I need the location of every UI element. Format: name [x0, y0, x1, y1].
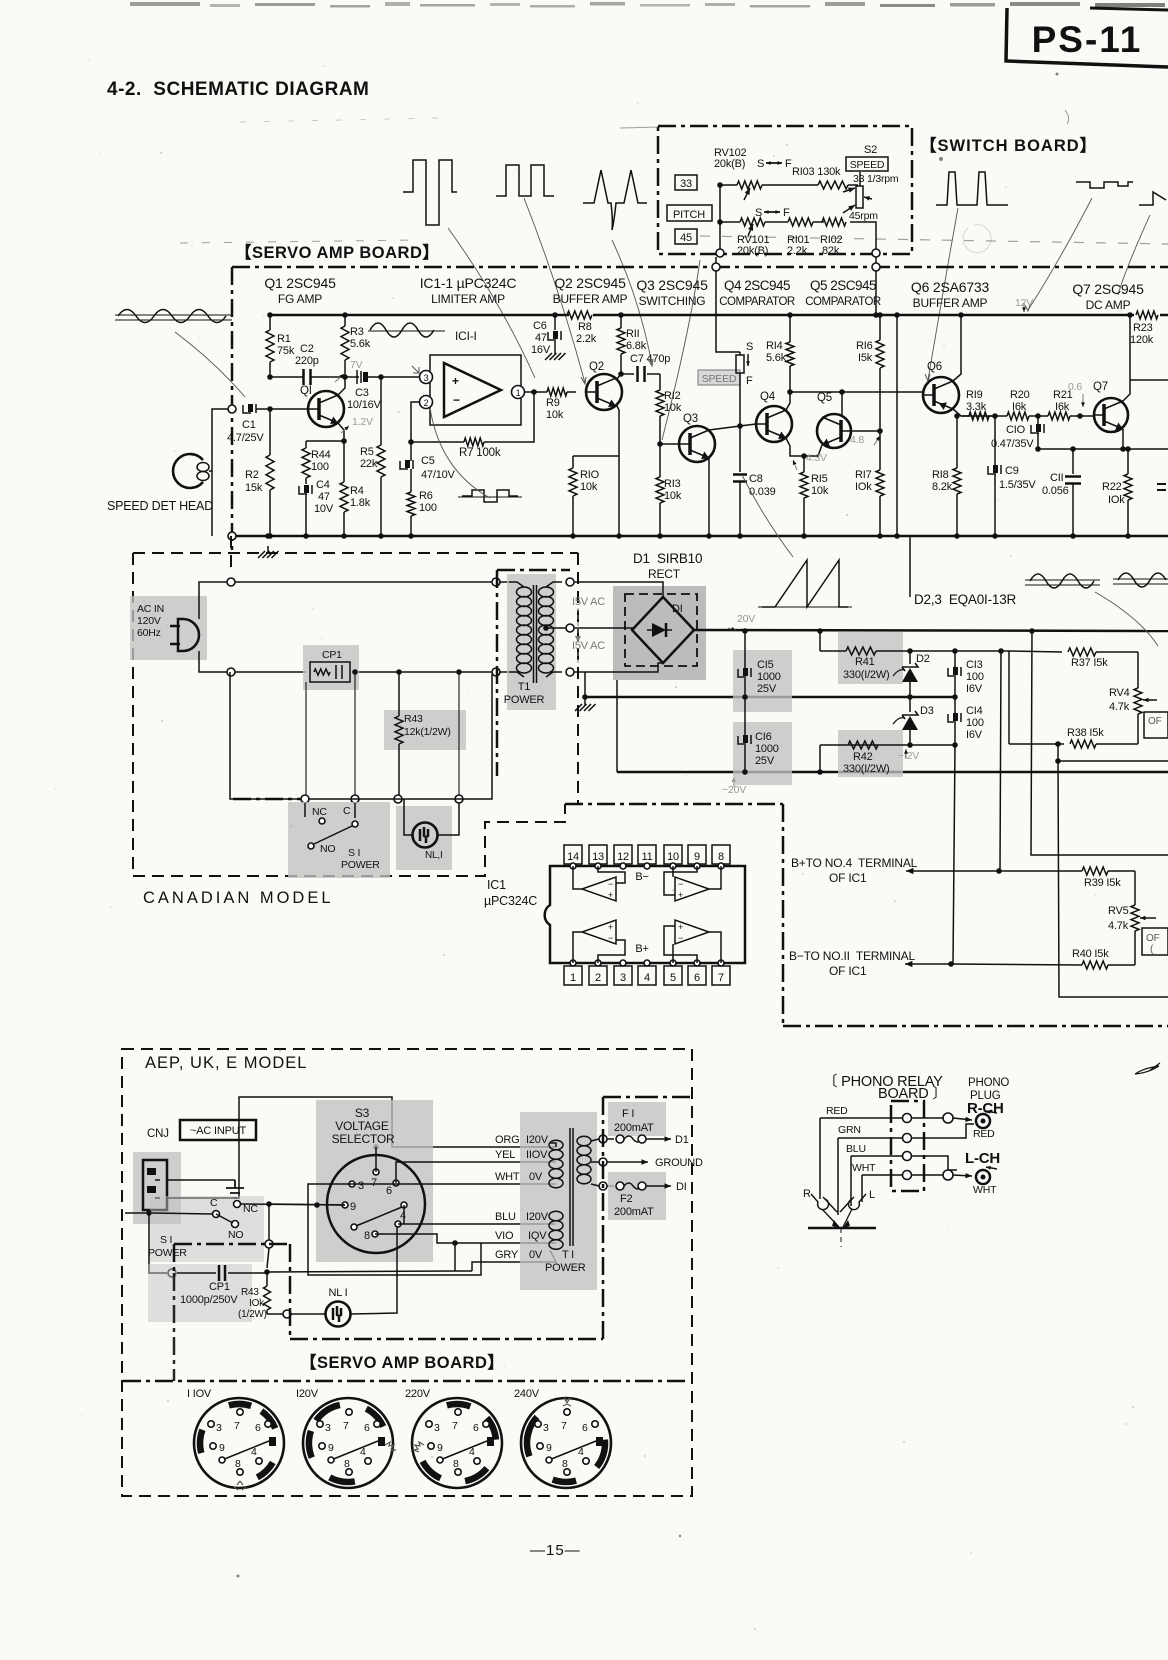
label B- terminal: [789, 949, 915, 978]
svg-text:NL,I: NL,I: [425, 850, 443, 861]
svg-text:C7 470p: C7 470p: [630, 353, 670, 365]
svg-text:7: 7: [234, 1420, 240, 1432]
svg-text:IC1: IC1: [487, 878, 506, 892]
wire plug to S1: [149, 1213, 167, 1273]
svg-text:2.2k: 2.2k: [787, 245, 808, 257]
label IC1-1 stage: [420, 275, 517, 306]
phono ground: [808, 1209, 876, 1247]
phono relay label: [823, 1073, 947, 1102]
svg-text:3: 3: [325, 1422, 331, 1434]
label YEL: [495, 1149, 548, 1161]
node sec top: [566, 578, 574, 586]
wire D label col: [909, 536, 911, 597]
svg-text:SPEED: SPEED: [850, 159, 885, 171]
svg-text:Q2 2SC945: Q2 2SC945: [554, 275, 626, 291]
wire phono WHT down: [861, 1175, 863, 1202]
voltage 4.3V: [793, 452, 827, 470]
label WHT wire: [852, 1162, 876, 1174]
wire AC bottom: [199, 651, 509, 676]
wire GRY CP1 line: [267, 1243, 472, 1272]
svg-text:IOk: IOk: [249, 1298, 265, 1309]
svg-text:8: 8: [718, 851, 724, 863]
svg-text:R4: R4: [350, 485, 364, 497]
wire sec mid to bridge: [574, 628, 632, 630]
wire Q4 base: [740, 424, 756, 426]
svg-text:4: 4: [400, 1210, 406, 1222]
svg-text:VIO: VIO: [495, 1230, 514, 1242]
svg-text:NO: NO: [320, 843, 335, 855]
svg-text:RI8: RI8: [932, 469, 949, 481]
wire Q5 collector: [841, 392, 843, 417]
node sb1: [712, 263, 720, 271]
svg-text:RED: RED: [826, 1105, 848, 1117]
wire rail 449: [1035, 446, 1168, 452]
svg-text:S: S: [746, 341, 753, 353]
svg-text:7: 7: [561, 1420, 567, 1432]
svg-text:9: 9: [219, 1442, 225, 1454]
label BLU: [495, 1211, 549, 1223]
S3 pin 6: [386, 1180, 399, 1197]
svg-text:6.8k: 6.8k: [626, 340, 647, 352]
svg-text:6: 6: [473, 1422, 479, 1434]
svg-text:RI9: RI9: [966, 389, 983, 401]
servo border bottom mid: [565, 803, 783, 806]
svg-text:8: 8: [364, 1230, 370, 1242]
svg-text:3: 3: [216, 1422, 222, 1434]
svg-text:IOk: IOk: [1108, 494, 1125, 506]
svg-text:1: 1: [570, 972, 576, 984]
svg-text:−: −: [678, 933, 683, 943]
resistor R11: [617, 312, 647, 374]
svg-text:C9: C9: [1005, 465, 1019, 477]
wire -20V rail: [617, 771, 1168, 774]
relay contact 4: [903, 1171, 912, 1180]
svg-text:47: 47: [535, 332, 547, 344]
title 4-2 schematic diagram: [107, 79, 369, 100]
wire C2 to C3: [311, 374, 359, 380]
resistor R16: [856, 312, 884, 431]
svg-text:3: 3: [424, 373, 429, 383]
wire Q7 base: [1077, 413, 1094, 419]
svg-text:IC1-1 µPC324C: IC1-1 µPC324C: [420, 275, 517, 291]
svg-text:25V: 25V: [757, 683, 777, 695]
svg-text:−I2V: −I2V: [898, 750, 919, 762]
svg-text:S: S: [757, 158, 764, 170]
wire CP1 down: [305, 682, 307, 796]
svg-text:4.3V: 4.3V: [806, 452, 827, 464]
svg-text:YEL: YEL: [495, 1149, 515, 1161]
wire S3 pin7 up: [375, 1147, 377, 1172]
svg-text:7: 7: [371, 1177, 377, 1189]
svg-text:R1: R1: [277, 333, 291, 345]
svg-text:47: 47: [318, 491, 330, 503]
svg-text:I20V: I20V: [296, 1388, 319, 1400]
svg-text:6: 6: [386, 1185, 392, 1197]
capacitor C14: [948, 697, 984, 748]
resistor R15: [800, 470, 829, 539]
IC1 chip body: [545, 866, 745, 963]
label D1 SIRB10: [633, 551, 702, 581]
svg-text:8: 8: [562, 1458, 568, 1470]
selector setting 110V: [187, 1388, 284, 1490]
speed label box: [698, 370, 740, 385]
svg-text:【SERVO AMP BOARD】: 【SERVO AMP BOARD】: [235, 243, 439, 262]
svg-text:C: C: [343, 805, 351, 817]
resistor R9: [545, 388, 576, 421]
svg-text:POWER: POWER: [545, 1262, 586, 1274]
svg-text:R23: R23: [1133, 322, 1153, 334]
servo board border top: [232, 266, 1168, 269]
resistor R14: [766, 312, 794, 368]
svg-text:75k: 75k: [277, 345, 295, 357]
S3 blade: [351, 1207, 402, 1230]
svg-text:L: L: [869, 1189, 875, 1201]
svg-text:10k: 10k: [664, 402, 682, 414]
svg-text:F I: F I: [622, 1108, 634, 1120]
label 15VAC 2: [572, 640, 605, 666]
stray mark bottom right: [1135, 1063, 1160, 1074]
svg-text:C: C: [210, 1197, 218, 1209]
svg-text:WHT: WHT: [852, 1162, 876, 1174]
label B+ terminal: [791, 856, 918, 885]
svg-text:RI5: RI5: [811, 473, 828, 485]
box OF right 2: [1142, 928, 1168, 955]
svg-text:F: F: [783, 207, 790, 219]
svg-text:NC: NC: [312, 806, 327, 818]
resistor R5: [360, 377, 385, 539]
resistor R22: [1102, 446, 1132, 539]
wire Q4 collector: [786, 368, 790, 410]
node F1 in: [599, 1135, 607, 1143]
wire sec to F2: [591, 1182, 614, 1190]
svg-text:RI3: RI3: [664, 478, 681, 490]
node S2 out: [737, 423, 743, 429]
svg-text:200mAT: 200mAT: [614, 1122, 654, 1134]
IC1 bottom pins: [564, 960, 730, 985]
svg-text:Q6: Q6: [927, 361, 942, 373]
svg-text:Q1 2SC945: Q1 2SC945: [264, 275, 336, 291]
wire to Q6 base: [787, 389, 923, 395]
svg-text:1000: 1000: [757, 671, 781, 683]
ground rail: [232, 535, 1168, 538]
switch S1 AEP: [125, 1196, 264, 1262]
svg-text:−: −: [453, 393, 460, 407]
selector setting 220V: [405, 1388, 502, 1488]
wire mid node: [267, 374, 303, 380]
capacitor C1: [227, 404, 264, 444]
wire AEP hot: [167, 1097, 556, 1198]
svg-text:F: F: [746, 375, 753, 387]
svg-text:FG AMP: FG AMP: [278, 292, 322, 306]
lamp NL1 AEP: [326, 1287, 351, 1327]
svg-text:D1: D1: [675, 1134, 689, 1146]
AEP label: [145, 1054, 307, 1072]
wire sec to F1: [591, 1139, 599, 1141]
svg-text:5.6k: 5.6k: [350, 338, 371, 350]
svg-text:R5: R5: [360, 446, 374, 458]
svg-text:R43: R43: [241, 1287, 259, 1298]
svg-text:CI4: CI4: [966, 705, 983, 717]
svg-text:【SERVO AMP BOARD】: 【SERVO AMP BOARD】: [300, 1353, 504, 1372]
ground sym left: [258, 533, 279, 558]
voltage -12V: [898, 749, 919, 762]
resistor R19: [961, 389, 995, 420]
potentiometer RV101: [737, 207, 790, 257]
label WHT: [495, 1171, 543, 1183]
wire sec bot to bridge: [574, 663, 663, 672]
svg-text:OF: OF: [1146, 933, 1160, 944]
svg-text:RI4: RI4: [766, 340, 783, 352]
S3 pin 9: [342, 1201, 356, 1213]
svg-text:C4: C4: [316, 479, 330, 491]
svg-text:Q6 2SA6733: Q6 2SA6733: [911, 279, 990, 295]
svg-text:Q5: Q5: [817, 392, 832, 404]
svg-text:C2: C2: [300, 343, 314, 355]
svg-text:I5V AC: I5V AC: [572, 596, 605, 608]
noise band top: [130, 2, 1165, 8]
label ORG: [495, 1134, 549, 1146]
relay contact 3: [903, 1152, 912, 1161]
svg-text:10k: 10k: [664, 490, 682, 502]
svg-text:CII: CII: [1050, 472, 1064, 484]
wire C3 out: [368, 374, 421, 380]
pot S2 servo side: [736, 341, 753, 426]
svg-text:60Hz: 60Hz: [137, 627, 161, 639]
svg-text:+: +: [452, 374, 459, 388]
svg-text:120V: 120V: [137, 615, 161, 627]
svg-text:LIMITER AMP: LIMITER AMP: [431, 292, 505, 306]
wire col 1058 down: [1055, 758, 1168, 997]
svg-text:14: 14: [567, 851, 579, 863]
svg-text:330(I/2W): 330(I/2W): [843, 763, 890, 775]
wire sb down: [716, 257, 740, 352]
wire Q1 emitter: [338, 423, 344, 441]
wire GRY: [472, 1250, 556, 1271]
svg-text:9: 9: [694, 851, 700, 863]
svg-text:B+TO NO.4 TERMINAL: B+TO NO.4 TERMINAL: [791, 856, 918, 870]
svg-text:6: 6: [694, 972, 700, 984]
capacitor C8: [733, 426, 776, 539]
label GRY: [495, 1249, 543, 1261]
leader curves top: [175, 198, 1150, 440]
waveform steps right: [1076, 182, 1133, 188]
transistor Q7: [1093, 381, 1128, 432]
leader curve C5: [430, 408, 490, 498]
wire rail 631 junction: [1029, 628, 1035, 634]
svg-text:1000p/250V: 1000p/250V: [180, 1294, 238, 1306]
switch board border: [658, 126, 912, 254]
zener D2: [893, 648, 930, 700]
node switch board out 1: [716, 249, 724, 257]
svg-text:RIO: RIO: [580, 469, 600, 481]
resistor R43 AEP: [238, 1272, 271, 1320]
capacitor C15: [733, 628, 792, 712]
switch board label: [920, 136, 1097, 155]
svg-text:220p: 220p: [295, 355, 319, 367]
wire out 380: [1130, 379, 1168, 381]
box OF right 1: [1144, 712, 1168, 738]
fuse F1: [607, 1102, 689, 1146]
svg-text:R3: R3: [350, 326, 364, 338]
svg-text:I5V AC: I5V AC: [572, 640, 605, 652]
svg-text:−: −: [608, 879, 613, 889]
svg-text:Q2: Q2: [589, 361, 604, 373]
waveform square pulses 2: [496, 165, 554, 196]
svg-text:S3: S3: [355, 1106, 370, 1120]
capacitor C10: [991, 413, 1044, 450]
label PITCH box: [667, 205, 712, 221]
node switch board out 2: [872, 249, 880, 257]
svg-text:ICI-I: ICI-I: [455, 329, 477, 343]
resistor R17: [855, 431, 884, 539]
svg-text:C1: C1: [242, 419, 256, 431]
IC1 chip label: [484, 878, 537, 908]
label Q2 stage: [553, 275, 628, 306]
wire pin1 out: [524, 391, 545, 393]
resistor R38: [1009, 727, 1138, 748]
svg-text:15k: 15k: [245, 482, 263, 494]
svg-text:100: 100: [419, 502, 437, 514]
svg-text:CIO: CIO: [1006, 424, 1026, 436]
svg-text:7V: 7V: [350, 359, 363, 371]
AEP box border: [122, 1049, 692, 1496]
svg-text:IOk: IOk: [855, 481, 872, 493]
svg-text:3: 3: [358, 1180, 364, 1192]
svg-text:5: 5: [670, 972, 676, 984]
label CNJ: [147, 1128, 169, 1140]
waveform square small: [458, 490, 522, 502]
wire R43 to NL1: [267, 1313, 326, 1315]
dash-dot T1 inner: [497, 570, 570, 776]
svg-text:CANADIAN MODEL: CANADIAN MODEL: [143, 889, 334, 907]
svg-text:16V: 16V: [531, 344, 551, 356]
wire pin2 loop: [411, 402, 419, 442]
svg-text:RI7: RI7: [855, 469, 872, 481]
svg-text:PHONO: PHONO: [968, 1077, 1009, 1089]
svg-text:CNJ: CNJ: [147, 1128, 169, 1140]
wire VIO: [375, 1234, 556, 1246]
jack L-CH: [953, 1166, 997, 1196]
wire col 953 down: [953, 745, 955, 964]
fuse F2: [608, 1172, 687, 1220]
selector S3 circle: [327, 1155, 425, 1253]
wire WHT: [352, 1183, 556, 1185]
svg-text:WHT: WHT: [495, 1171, 520, 1183]
node S1 c: [394, 795, 402, 803]
capacitor C5: [400, 439, 456, 490]
wire +12V rail: [910, 648, 1009, 654]
resistor R37: [1009, 648, 1138, 669]
svg-text:20V: 20V: [737, 613, 755, 625]
svg-text:1.5/35V: 1.5/35V: [999, 479, 1036, 491]
wire S1 row to T1: [308, 674, 492, 799]
T1 windings: [504, 582, 562, 706]
label L-CH: [965, 1150, 1000, 1167]
wire AC top: [199, 578, 509, 619]
bridge D1: [613, 586, 706, 680]
svg-text:0.47/35V: 0.47/35V: [991, 438, 1034, 450]
svg-text:C3: C3: [355, 387, 369, 399]
svg-text:2.2k: 2.2k: [576, 333, 597, 345]
servo border AEP right: [603, 1097, 692, 1339]
svg-text:SELECTOR: SELECTOR: [332, 1132, 395, 1146]
svg-text:DC AMP: DC AMP: [1086, 298, 1131, 312]
wire sb2 down: [872, 257, 880, 318]
svg-text:T1: T1: [518, 681, 531, 693]
servo board border left: [231, 267, 234, 550]
capacitor C4: [299, 479, 334, 539]
wire 45 row: [720, 222, 876, 253]
svg-text:S: S: [755, 207, 762, 219]
top supply rail: [270, 314, 1168, 317]
stray equals mark: [1157, 484, 1166, 490]
svg-text:COMPARATOR: COMPARATOR: [719, 296, 795, 308]
svg-text:I6k: I6k: [1055, 401, 1070, 413]
pin 2 IC1: [420, 396, 433, 409]
wire C1 to base: [256, 406, 308, 412]
switch S1 canadian: [288, 802, 390, 878]
relay board box: [891, 1101, 924, 1191]
voltage -20V: [722, 777, 746, 796]
svg-text:ORG: ORG: [495, 1134, 519, 1146]
wire Q2 collector: [616, 374, 621, 380]
label RED wire: [826, 1105, 848, 1117]
svg-text:CP1: CP1: [322, 649, 342, 661]
wire left join rows: [717, 182, 723, 253]
wire NC to pin9: [241, 1204, 345, 1205]
svg-text:3: 3: [543, 1422, 549, 1434]
wire NL1 right: [350, 1226, 397, 1314]
label R-CH: [967, 1100, 1004, 1117]
svg-text:R40 I5k: R40 I5k: [1072, 948, 1109, 960]
servo border AEP: [174, 1244, 603, 1339]
IC1 B- label: [635, 871, 648, 883]
svg-text:R44: R44: [311, 449, 331, 461]
resistor R18: [932, 413, 961, 539]
svg-text:R20: R20: [1010, 389, 1030, 401]
svg-text:BUFFER AMP: BUFFER AMP: [553, 292, 628, 306]
wire S1 column: [230, 672, 300, 799]
svg-text:33: 33: [680, 178, 692, 190]
svg-text:−: −: [608, 933, 613, 943]
svg-text:9: 9: [437, 1442, 443, 1454]
svg-text:8: 8: [344, 1458, 350, 1470]
svg-text:200mAT: 200mAT: [614, 1206, 654, 1218]
waveform sine left margin: [115, 310, 232, 323]
node R43 bottom: [283, 1310, 291, 1318]
IC1 amp A: [573, 866, 625, 901]
svg-text:POWER: POWER: [341, 859, 380, 871]
node sec bot: [566, 668, 574, 676]
resistor R103: [792, 166, 848, 189]
voltage 7V: [335, 359, 363, 382]
waveform sawtooth mid: [758, 560, 852, 607]
S3 pin 4: [395, 1210, 406, 1227]
svg-text:9: 9: [328, 1442, 334, 1454]
canadian right border: [577, 553, 579, 790]
resistor R1: [266, 312, 295, 377]
svg-text:+: +: [608, 890, 613, 900]
IC1 amp B: [664, 866, 721, 901]
leader curve RV4: [1095, 592, 1158, 646]
svg-text:~AC INPUT: ~AC INPUT: [190, 1125, 246, 1137]
servo border bottom right: [783, 1025, 1168, 1028]
voltage 1.2V: [341, 416, 373, 433]
coil R: [803, 1188, 837, 1212]
label Q7 stage: [1072, 281, 1144, 312]
waveform sawtooth edge: [1139, 192, 1166, 205]
potentiometer RV102: [714, 147, 792, 200]
